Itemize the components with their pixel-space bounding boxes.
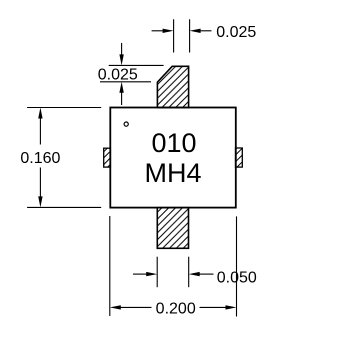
dim 0.160: extension line top [27, 107, 101, 109]
dim 0.050: left arrow [133, 273, 148, 275]
svg-text:0.025: 0.025 [216, 24, 256, 41]
svg-text:010: 010 [151, 128, 196, 158]
dim left 0.025: extension line upper [109, 64, 164, 66]
dim 0.160: down arrow [39, 168, 41, 199]
dim 0.160: extension line bottom [27, 206, 101, 208]
left side tab (hatched) [104, 148, 111, 167]
dim top 0.025: left arrow [152, 30, 164, 32]
dim 0.050: extension line right [188, 257, 190, 288]
dim top 0.025: extension line left [173, 19, 175, 52]
dim 0.200: left arrow [110, 305, 121, 309]
pin 1 indicator circle [124, 122, 128, 126]
bottom lead tab (hatched) [157, 208, 188, 249]
dim left 0.025: extension line lower [100, 81, 151, 83]
top lead tab (hatched) [157, 66, 188, 107]
dim 0.200: extension line left [109, 216, 111, 316]
dim 0.050: right arrow with leader [189, 272, 200, 276]
svg-text:MH4: MH4 [144, 158, 201, 188]
svg-text:0.160: 0.160 [20, 150, 60, 167]
package body [110, 108, 236, 208]
dim 0.200: extension line right [236, 216, 238, 316]
svg-text:0.200: 0.200 [156, 301, 196, 318]
dim left 0.025: up arrow [119, 82, 123, 93]
dim left 0.025: down arrow [121, 43, 123, 57]
right side tab (hatched) [236, 148, 243, 167]
dim 0.200: right arrow [200, 306, 228, 308]
dim top 0.025: extension line right [189, 19, 191, 52]
svg-text:0.025: 0.025 [98, 67, 138, 84]
dim 0.160: up arrow [38, 108, 42, 119]
dim top 0.025: right arrow with leader [190, 29, 201, 33]
dim 0.050: extension line left [156, 257, 158, 288]
